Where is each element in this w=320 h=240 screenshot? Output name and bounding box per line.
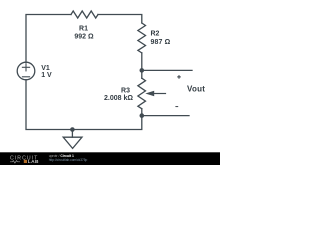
wire top-right from R1 to R2 — [98, 15, 142, 24]
minus terminal label — [175, 106, 178, 108]
ground triangle — [63, 137, 82, 148]
wire bottom return to V1 — [26, 80, 142, 130]
watermark bar — [0, 152, 220, 165]
ground stub wire — [71, 130, 73, 138]
wire top-left from V1 to R1 — [26, 15, 71, 63]
resistor R3 zigzag — [138, 78, 146, 109]
wire node A to R3 — [141, 70, 143, 78]
voltage source V1 circle — [17, 62, 35, 80]
svg-text:987 Ω: 987 Ω — [151, 39, 171, 46]
wire node B to minus terminal — [142, 115, 189, 117]
svg-text:2.008 kΩ: 2.008 kΩ — [104, 95, 133, 102]
V1 plus sign — [22, 66, 29, 68]
resistor R1 — [71, 11, 98, 18]
svg-text:1 V: 1 V — [41, 72, 52, 79]
svg-text:http://circuitlab.com/ck375p: http://circuitlab.com/ck375p — [49, 158, 88, 162]
R3 wiper arrow line — [154, 93, 166, 95]
svg-text:LAB: LAB — [28, 159, 39, 165]
logo zigzag — [10, 161, 20, 163]
ground junction dot — [70, 127, 75, 132]
node B junction dot — [140, 113, 145, 118]
svg-text:R2: R2 — [151, 31, 160, 38]
logo orange square — [24, 160, 27, 163]
svg-text:Vout: Vout — [187, 85, 205, 94]
R3 wiper arrowhead — [145, 91, 154, 96]
V1 minus sign — [22, 76, 29, 78]
node A junction dot — [140, 68, 145, 73]
plus terminal label — [177, 75, 181, 79]
wire R2 to node A — [141, 53, 143, 71]
svg-text:R1: R1 — [79, 26, 88, 33]
svg-text:992 Ω: 992 Ω — [74, 34, 94, 41]
svg-text:R3: R3 — [121, 88, 130, 95]
wire node A to plus terminal — [142, 69, 192, 71]
resistor R2 — [138, 23, 146, 53]
wire R3 to node B — [141, 109, 143, 116]
